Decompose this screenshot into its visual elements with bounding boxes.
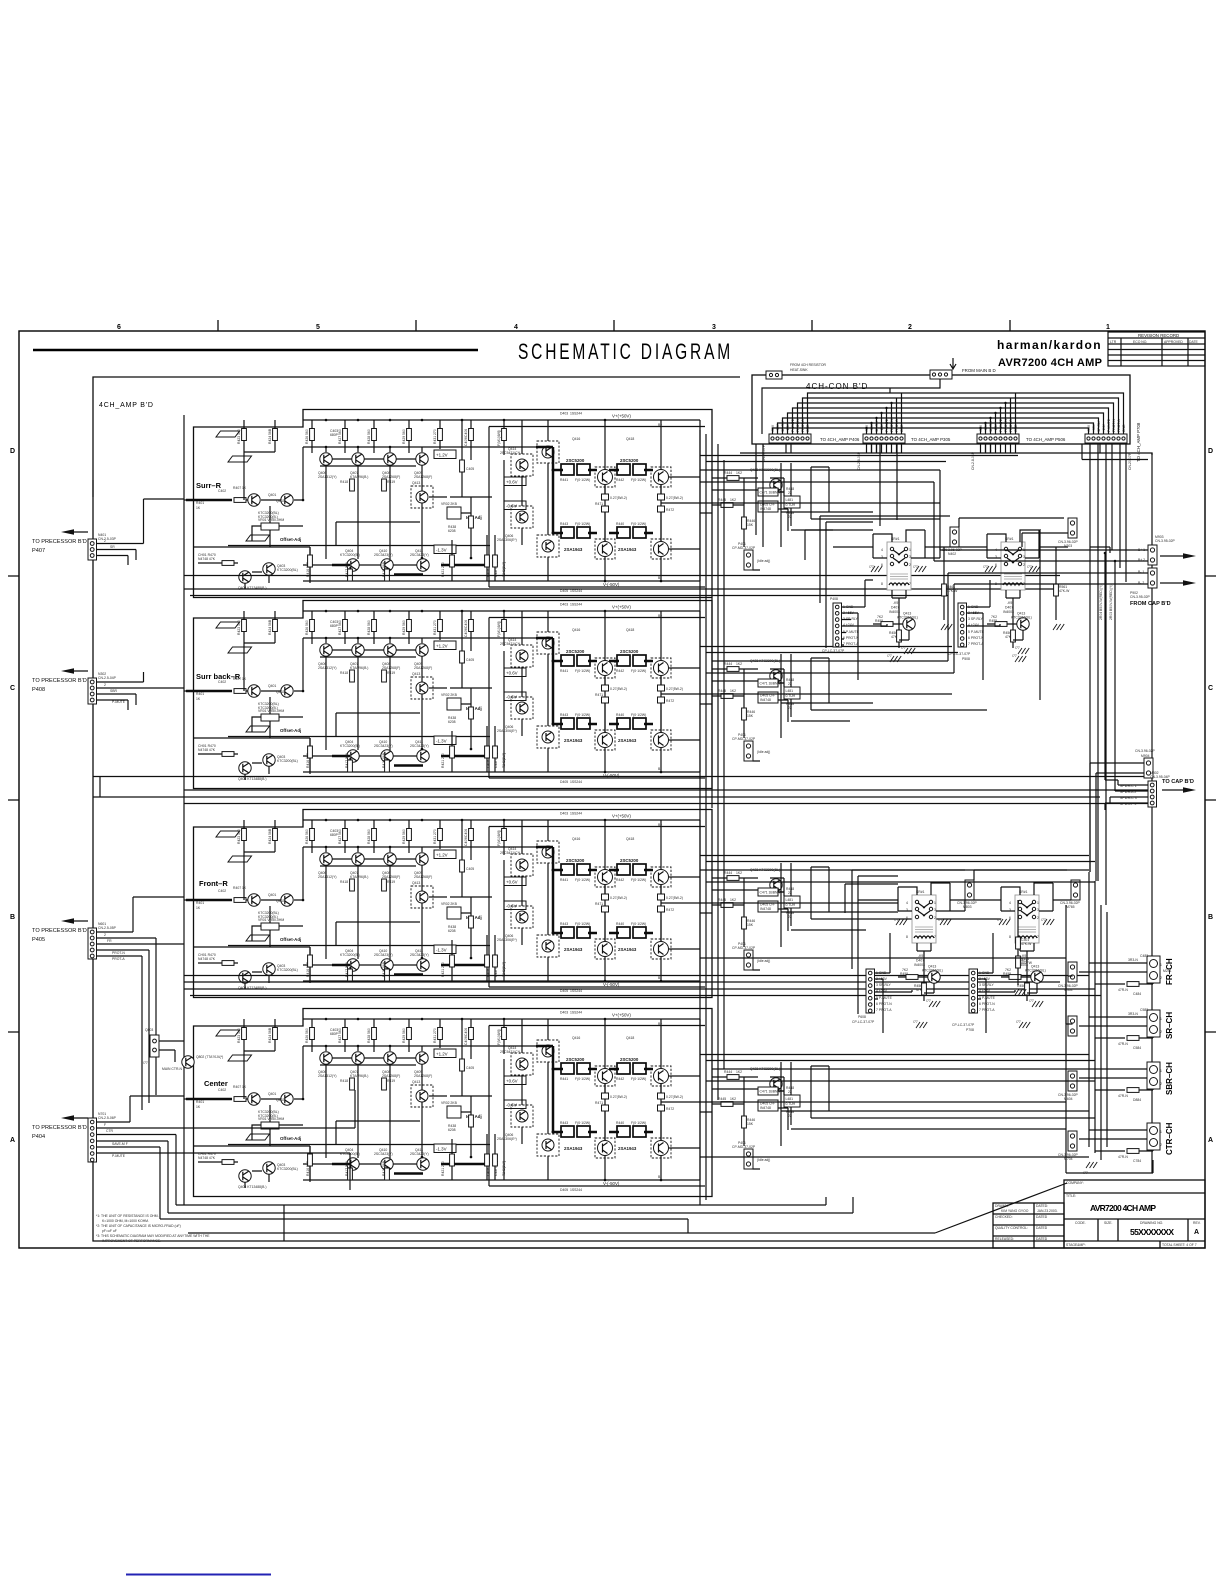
svg-text:M765: M765 <box>1066 905 1075 909</box>
column of small connectors <box>1068 1071 1077 1091</box>
connector P708 7p <box>866 969 875 1013</box>
SBR channel output <box>1147 1062 1160 1089</box>
svg-text:C: C <box>10 685 15 692</box>
svg-text:QUALITY CONTROL:: QUALITY CONTROL: <box>995 1226 1028 1230</box>
svg-text:HEAT-SINK: HEAT-SINK <box>790 368 808 372</box>
svg-text:TO 4CH_AMP P506: TO 4CH_AMP P506 <box>1026 437 1066 442</box>
title thick rule <box>33 349 478 352</box>
wire bus between channel rows 1-2 <box>184 576 1060 596</box>
svg-text:KIM YANG GYOO: KIM YANG GYOO <box>1001 1209 1029 1213</box>
frame column ticks top <box>218 320 1010 331</box>
svg-text:47K-W: 47K-W <box>1021 942 1032 946</box>
svg-text:REVISION RECORD: REVISION RECORD <box>1138 333 1179 338</box>
amplifier channel Front-R <box>184 810 800 998</box>
svg-text:SR: SR <box>110 545 115 549</box>
svg-text:7 PROT-A: 7 PROT-A <box>843 642 859 646</box>
svg-text:TOTAL SHEET: 4 OF 7: TOTAL SHEET: 4 OF 7 <box>1162 1243 1197 1247</box>
svg-text:Surr back–R: Surr back–R <box>196 672 241 681</box>
connector P407 <box>32 499 184 565</box>
svg-text:6 PROT-N: 6 PROT-N <box>843 636 859 640</box>
svg-text:TO 4CH_AMP P708: TO 4CH_AMP P708 <box>1136 422 1141 462</box>
svg-text:FROM 4CH RESISTOR: FROM 4CH RESISTOR <box>790 363 826 367</box>
wire bus between channel rows 2-3 <box>93 777 1152 804</box>
zone letters <box>10 448 1213 1144</box>
svg-text:5 P-MUTE: 5 P-MUTE <box>979 996 996 1000</box>
svg-text:FR: FR <box>107 939 112 943</box>
svg-text:Center: Center <box>204 1079 228 1088</box>
svg-text:CP-LC-37-07P: CP-LC-37-07P <box>822 649 845 653</box>
svg-text:M241: M241 <box>1163 969 1172 973</box>
sense resistors <box>1016 937 1021 949</box>
connector P408 7p <box>833 603 842 647</box>
revision record table <box>1108 332 1205 366</box>
svg-text:1: 1 <box>1160 1130 1162 1134</box>
2p connectors <box>965 880 974 900</box>
svg-text:1: 1 <box>1106 324 1110 331</box>
svg-text:CN-3.95-02P: CN-3.95-02P <box>1155 539 1176 543</box>
svg-text:Surr–R: Surr–R <box>196 481 222 490</box>
svg-text:TO 4CH_AMP P305: TO 4CH_AMP P305 <box>911 437 951 442</box>
svg-text:2: 2 <box>104 683 106 687</box>
svg-text:CTR: CTR <box>106 1129 114 1133</box>
svg-text:P-MUTE: P-MUTE <box>112 1154 126 1158</box>
svg-text:JAN.23.2003.: JAN.23.2003. <box>1037 1209 1058 1213</box>
svg-text:2R03 B50V-W(RED)(Y): 2R03 B50V-W(RED)(Y) <box>1109 585 1113 620</box>
svg-text:DRAWING NO.: DRAWING NO. <box>1140 1221 1163 1225</box>
svg-text:/77: /77 <box>1016 1020 1021 1024</box>
relay FR01 <box>894 883 951 1007</box>
svg-text:1: 1 <box>1160 963 1162 967</box>
svg-text:*1: THE UNIT OF RESISTANCE IS: *1: THE UNIT OF RESISTANCE IS OHM. <box>96 1214 159 1218</box>
svg-text:3 SP-RLY: 3 SP-RLY <box>968 617 984 621</box>
svg-text:2: 2 <box>104 933 106 937</box>
svg-text:FROM CAP B'D: FROM CAP B'D <box>1130 601 1171 607</box>
svg-text:6 PROT-N: 6 PROT-N <box>968 636 984 640</box>
svg-text:/77: /77 <box>143 1061 148 1065</box>
svg-text:M604: M604 <box>1064 1097 1073 1101</box>
svg-text:D: D <box>10 448 15 455</box>
connector P404 <box>32 1090 355 1219</box>
svg-text:2: 2 <box>1160 1030 1162 1034</box>
2p connector right <box>1068 518 1077 538</box>
cluster wiring <box>845 870 1071 1033</box>
svg-text:AVR7200 4CH AMP: AVR7200 4CH AMP <box>998 357 1102 369</box>
svg-text:IMPROVEMENT OF PERFORMANCE.: IMPROVEMENT OF PERFORMANCE. <box>102 1239 161 1243</box>
svg-text:47R-N: 47R-N <box>1118 1094 1128 1098</box>
svg-text:3R3-N: 3R3-N <box>1128 1012 1138 1016</box>
sense resistors <box>942 584 947 596</box>
svg-text:5 P-MUTE: 5 P-MUTE <box>968 630 985 634</box>
FR channel output <box>1147 956 1160 983</box>
svg-text:55XXXXXXX: 55XXXXXXX <box>1130 1227 1174 1237</box>
svg-text:*3: THIS SCHEMATIC DIAGRAM MAY: *3: THIS SCHEMATIC DIAGRAM MAY MODIFIED … <box>96 1234 210 1238</box>
svg-text:47K-W: 47K-W <box>1059 589 1070 593</box>
svg-text:P708: P708 <box>966 1028 974 1032</box>
svg-text:2: 2 <box>104 539 106 543</box>
svg-text:5: 5 <box>316 324 320 331</box>
relay CR01 <box>997 883 1054 1007</box>
svg-text:B: B <box>1208 914 1213 921</box>
svg-text:P408: P408 <box>32 687 45 693</box>
svg-text:SR–CH: SR–CH <box>1165 1012 1174 1039</box>
svg-text:pF=uF uF: pF=uF uF <box>102 1229 117 1233</box>
svg-text:A: A <box>1194 1229 1199 1236</box>
CTR channel output <box>1147 1123 1160 1150</box>
svg-text:REV.: REV. <box>1193 1221 1201 1225</box>
svg-text:/77: /77 <box>1012 654 1017 658</box>
frame for output area <box>1066 905 1153 1173</box>
svg-text:CP-LC-37-07P: CP-LC-37-07P <box>948 652 971 656</box>
svg-text:CN-2.5-03P: CN-2.5-03P <box>98 537 117 541</box>
svg-text:4CH-CON B'D: 4CH-CON B'D <box>806 382 868 391</box>
relay SR02 <box>983 530 1040 654</box>
svg-text:PROT-A: PROT-A <box>112 957 125 961</box>
center channel aux connector <box>143 1028 223 1071</box>
feed wires <box>700 470 1148 673</box>
SR channel output <box>1147 1010 1160 1037</box>
svg-text:PROT-N: PROT-N <box>112 951 125 955</box>
svg-text:5 P-MUTE: 5 P-MUTE <box>876 996 893 1000</box>
svg-text:6 PROT-N: 6 PROT-N <box>979 1002 995 1006</box>
svg-text:CP-LC-37-07P: CP-LC-37-07P <box>952 1023 975 1027</box>
svg-text:SBR: SBR <box>110 689 118 693</box>
svg-text:LTR: LTR <box>1110 340 1117 344</box>
amplifier channel Center <box>184 1009 800 1197</box>
svg-text:STAGE&MP:: STAGE&MP: <box>1066 1243 1086 1247</box>
connector M902 from cap <box>1148 568 1157 588</box>
con board nested bus wiring <box>762 379 1124 434</box>
svg-text:D: D <box>1208 448 1213 455</box>
svg-text:2: 2 <box>1160 976 1162 980</box>
svg-text:P508: P508 <box>962 657 970 661</box>
svg-text:B: B <box>10 914 15 921</box>
svg-text:TO PRECESSOR B'D: TO PRECESSOR B'D <box>32 539 87 545</box>
svg-text:ECO NO.: ECO NO. <box>1133 340 1147 344</box>
svg-text:P405: P405 <box>32 937 45 943</box>
svg-text:3R3-N: 3R3-N <box>1128 958 1138 962</box>
svg-text:*2: THE UNIT OF CAPACITANCE IS: *2: THE UNIT OF CAPACITANCE IS MICRO-FRA… <box>96 1224 181 1228</box>
blue footer line <box>126 1574 271 1576</box>
svg-text:4: 4 <box>514 324 518 331</box>
svg-text:7 PROT-A: 7 PROT-A <box>968 642 984 646</box>
svg-text:TO PRECESSOR B'D: TO PRECESSOR B'D <box>32 928 87 934</box>
svg-text:/77: /77 <box>913 1020 918 1024</box>
bottom bus lines <box>160 1183 1067 1241</box>
svg-text:C582: C582 <box>1140 1008 1148 1012</box>
svg-text:M904: M904 <box>1141 754 1150 758</box>
svg-text:CN-2.8-01P: CN-2.8-01P <box>857 451 861 470</box>
svg-text:A: A <box>10 1137 15 1144</box>
wire bus between channel rows 3-4 <box>184 976 1101 996</box>
svg-text:TO CAP B'D: TO CAP B'D <box>1162 779 1194 785</box>
svg-text:K=1000 OHM, M=1000 KOHM.: K=1000 OHM, M=1000 KOHM. <box>102 1219 149 1223</box>
svg-text:C584: C584 <box>1133 1046 1141 1050</box>
svg-text:2: 2 <box>908 324 912 331</box>
svg-text:47R-N: 47R-N <box>1118 1042 1128 1046</box>
svg-text:2R04 B50V-W(RED)(Y): 2R04 B50V-W(RED)(Y) <box>1099 585 1103 620</box>
svg-text:SCHEMATIC DIAGRAM: SCHEMATIC DIAGRAM <box>518 339 733 364</box>
amplifier channel Surr-R <box>184 410 800 598</box>
svg-text:DATE: DATE <box>1189 340 1199 344</box>
svg-text:47R-N: 47R-N <box>1118 988 1128 992</box>
svg-text:CN-2.5-05P: CN-2.5-05P <box>98 926 117 930</box>
svg-text:7 PROT-A: 7 PROT-A <box>876 1008 892 1012</box>
svg-text:C482: C482 <box>1140 954 1148 958</box>
svg-text:7 PROT-A: 7 PROT-A <box>979 1008 995 1012</box>
svg-text:802FW: 802FW <box>1021 961 1033 965</box>
svg-text:3 SP-RLY: 3 SP-RLY <box>979 983 995 987</box>
svg-text:C484: C484 <box>1133 992 1141 996</box>
svg-text:CN-3.96-02P: CN-3.96-02P <box>1135 749 1156 753</box>
svg-text:DATED: DATED <box>1036 1215 1048 1219</box>
feed wires from channels 3-4 <box>700 870 1095 1157</box>
channel output feed runs <box>700 456 1095 1061</box>
svg-text:TO PRECESSOR B'D: TO PRECESSOR B'D <box>32 678 87 684</box>
svg-text:MAIN CTR-N: MAIN CTR-N <box>162 1067 183 1071</box>
svg-text:COMPANY:: COMPANY: <box>1066 1181 1084 1185</box>
svg-text:SAVE-M F: SAVE-M F <box>112 1142 128 1146</box>
svg-text:AVR7200 4CH AMP: AVR7200 4CH AMP <box>1090 1203 1156 1213</box>
svg-text:CN-20-07P: CN-20-07P <box>1128 452 1132 470</box>
svg-text:TO 4CH_AMP P406: TO 4CH_AMP P406 <box>820 437 860 442</box>
svg-text:TO PRECESSOR B'D: TO PRECESSOR B'D <box>32 1125 87 1131</box>
svg-text:F: F <box>104 1123 106 1127</box>
svg-text:N402: N402 <box>948 552 956 556</box>
con strips <box>769 434 811 443</box>
svg-text:M803: M803 <box>963 905 972 909</box>
svg-text:SIZE.: SIZE. <box>1104 1221 1113 1225</box>
svg-text:1: 1 <box>1160 1069 1162 1073</box>
svg-text:Front–R: Front–R <box>199 879 228 888</box>
svg-text:TITLE:: TITLE: <box>1066 1194 1076 1198</box>
inner bus rail <box>183 415 185 1205</box>
svg-text:D884: D884 <box>1133 1098 1141 1102</box>
svg-text:CN-2.5-06P: CN-2.5-06P <box>98 1116 117 1120</box>
extra supply drops from con board <box>786 443 1148 582</box>
svg-text:P-MUTE: P-MUTE <box>112 700 126 704</box>
svg-text:CTR–CH: CTR–CH <box>1165 1122 1174 1155</box>
svg-text:2: 2 <box>1160 1143 1162 1147</box>
svg-text:1: 1 <box>1160 1017 1162 1021</box>
svg-text:FROM MAIN B D: FROM MAIN B D <box>962 368 996 373</box>
frame row ticks left/right <box>8 576 1216 1032</box>
svg-text:DATED:: DATED: <box>1036 1204 1048 1208</box>
svg-text:harman/kardon: harman/kardon <box>997 338 1101 352</box>
svg-text:CN-2.8-01P: CN-2.8-01P <box>971 451 975 470</box>
speaker output runs <box>661 503 1066 1102</box>
svg-text:A: A <box>1208 1137 1213 1144</box>
svg-text:P407: P407 <box>32 548 45 554</box>
svg-text:P404: P404 <box>32 1134 45 1140</box>
connector P408 <box>32 668 184 710</box>
svg-text:SBR–CH: SBR–CH <box>1165 1062 1174 1095</box>
svg-text:/77: /77 <box>887 654 892 658</box>
svg-text:4CH_AMP B'D: 4CH_AMP B'D <box>99 402 154 409</box>
svg-text:M404: M404 <box>1064 988 1073 992</box>
connector M903 to cap <box>1148 545 1157 565</box>
svg-text:3 SP-RLY: 3 SP-RLY <box>876 983 892 987</box>
svg-text:6 PROT-N: 6 PROT-N <box>876 1002 892 1006</box>
connector P508 7p <box>958 603 967 647</box>
svg-text:DATED: DATED <box>1036 1226 1048 1230</box>
svg-text:APPROVED: APPROVED <box>1164 340 1183 344</box>
svg-text:CN-2.5-04P: CN-2.5-04P <box>98 676 117 680</box>
svg-text:Q803: Q803 <box>145 1028 153 1032</box>
svg-text:Q802 (7TA?0J4(*): Q802 (7TA?0J4(*) <box>196 1055 223 1059</box>
connector P405 <box>32 897 184 1110</box>
svg-text:P608: P608 <box>858 1015 866 1019</box>
svg-text:CHECKED:: CHECKED: <box>995 1215 1013 1219</box>
output bus verticals <box>1089 872 1107 1160</box>
svg-text:3: 3 <box>712 324 716 331</box>
svg-text:47K-W: 47K-W <box>947 589 958 593</box>
vertical midfield bus wires <box>700 430 1040 1205</box>
svg-text:C: C <box>1208 685 1213 692</box>
svg-text:6: 6 <box>117 324 121 331</box>
relay SR01 <box>869 530 926 654</box>
cluster wiring <box>805 518 1068 680</box>
svg-text:CODE.: CODE. <box>1075 1221 1086 1225</box>
svg-text:CN-3.95-02P: CN-3.95-02P <box>1130 595 1151 599</box>
zone numbers top <box>117 324 1110 331</box>
svg-text:C784: C784 <box>1133 1159 1141 1163</box>
long vertical supply wires <box>1105 553 1115 786</box>
svg-text:2: 2 <box>1160 1082 1162 1086</box>
svg-text:P408: P408 <box>830 597 838 601</box>
2p connector mid <box>950 527 959 547</box>
page frame <box>19 331 1205 1248</box>
amplifier channel Surr back-R <box>184 601 800 789</box>
svg-text:47R-N: 47R-N <box>1118 1155 1128 1159</box>
svg-text:CP-LC-37-07P: CP-LC-37-07P <box>852 1020 875 1024</box>
output loop wiring near idle circuits <box>781 463 940 547</box>
